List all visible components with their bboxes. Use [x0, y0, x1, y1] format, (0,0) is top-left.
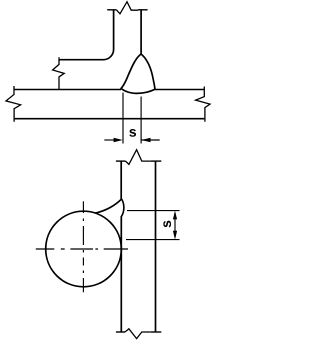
extension line lower (s) — [126, 239, 180, 241]
break zigzag of bent plate down to base plate surface — [53, 60, 65, 90]
plate right edge — [155, 161, 157, 332]
base plate top surface (right of weld) — [155, 89, 204, 91]
plate bottom break zigzag — [125, 329, 151, 339]
dimension line right + arrow — [141, 139, 159, 141]
tick at left end of bent-plate top surface — [58, 57, 60, 61]
horizontal centerline — [36, 248, 128, 250]
base plate right break zigzag — [196, 87, 210, 122]
top cap right — [138, 9, 148, 11]
round bar (circle) — [46, 211, 122, 287]
plate left edge lower — [120, 216, 122, 332]
weld bead (top figure) — [121, 54, 155, 93]
dimension line + arrows — [174, 213, 176, 237]
extension line 2 (s) — [140, 97, 142, 144]
bent plate right edge — [140, 10, 142, 55]
base plate bottom surface — [14, 118, 204, 120]
dimension line left + arrow — [104, 139, 114, 141]
plate top cap right — [151, 160, 161, 162]
extension line upper (s) — [127, 210, 180, 212]
top cap left — [107, 9, 116, 11]
plate bottom cap left — [116, 331, 125, 333]
plate bottom cap right — [151, 331, 161, 333]
weld bead left face (bottom figure) — [95, 199, 122, 213]
extension line 1 (s) — [122, 93, 124, 144]
weld bead right face (bottom figure) — [121, 199, 123, 217]
base plate left break zigzag — [6, 86, 21, 122]
top break zigzag — [116, 2, 138, 14]
plate left edge upper — [120, 161, 122, 199]
label s (top) — [129, 129, 136, 137]
plate top break zigzag — [126, 150, 151, 165]
bent plate left edge with outer corner radius — [59, 10, 114, 60]
vertical centerline — [82, 201, 84, 292]
label s (bottom, rotated) — [163, 221, 171, 228]
plate top cap left — [116, 160, 126, 162]
base plate top surface (left of weld) — [14, 89, 121, 91]
